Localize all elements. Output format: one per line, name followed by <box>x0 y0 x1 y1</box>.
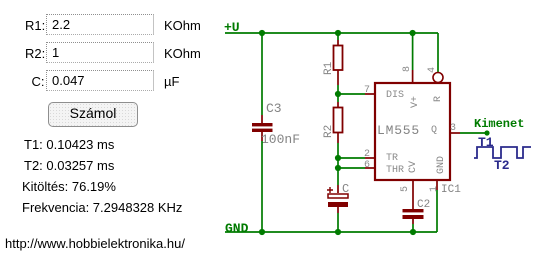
wire pin4 branch <box>437 33 439 72</box>
wire C3 branch lower <box>261 141 263 232</box>
svg-text:2: 2 <box>364 149 370 160</box>
pin 1 stub <box>436 180 438 190</box>
svg-text:8: 8 <box>402 66 413 72</box>
wire pin3 to output <box>460 132 487 134</box>
svg-text:R: R <box>433 96 444 102</box>
pin numbers <box>364 66 456 192</box>
wire R2 bottom to node TR <box>337 143 339 158</box>
svg-text:100nF: 100nF <box>261 132 300 147</box>
wire pin1 down to rail <box>436 190 438 232</box>
svg-text:GND: GND <box>436 156 447 174</box>
svg-text:6: 6 <box>364 160 370 171</box>
wire R1 top stub <box>337 33 339 40</box>
svg-text:GND: GND <box>225 221 249 236</box>
op-amp U1 : IC1 LM555 body <box>365 70 460 190</box>
svg-text:IC1: IC1 <box>441 184 461 196</box>
wire node down to R2 <box>337 94 339 102</box>
wire R1 bottom to node <box>337 85 339 94</box>
svg-text:T2: T2 <box>494 158 510 173</box>
wire THR node down to C <box>337 168 339 185</box>
svg-text:CV: CV <box>408 161 419 173</box>
svg-text:5: 5 <box>400 186 411 192</box>
svg-text:THR: THR <box>386 165 404 176</box>
pin names <box>386 90 447 176</box>
svg-text:Kimenet: Kimenet <box>474 117 524 131</box>
wire TR to THR node <box>337 158 339 168</box>
svg-text:7: 7 <box>364 85 370 96</box>
svg-text:C2: C2 <box>417 199 430 211</box>
junction dots <box>259 30 416 235</box>
pin 4 reset bubble <box>433 73 443 83</box>
button Számol <box>48 102 138 127</box>
svg-text:C: C <box>342 182 349 196</box>
pin 7 stub <box>365 93 375 95</box>
svg-text:4: 4 <box>427 67 438 73</box>
pin 5 stub <box>412 180 414 190</box>
pin 3 stub <box>450 132 460 134</box>
wire TR node to pin2 <box>338 157 365 159</box>
pin 8 stub <box>412 70 414 83</box>
form labels <box>25 19 45 32</box>
node Kimenet dangling dot <box>484 130 489 135</box>
svg-text:DIS: DIS <box>386 90 404 101</box>
wire C bottom <box>337 213 339 232</box>
results <box>24 138 114 151</box>
wire bottom rail GND <box>225 231 437 233</box>
pin 2 stub <box>365 157 375 159</box>
unit labels <box>164 19 201 32</box>
svg-text:C3: C3 <box>266 101 282 116</box>
svg-text:Q: Q <box>431 125 437 136</box>
svg-text:V+: V+ <box>410 96 421 108</box>
waveform sketch <box>474 147 531 158</box>
svg-text:1: 1 <box>429 186 440 192</box>
capacitor C2 <box>403 190 424 224</box>
wire C2 bottom <box>412 224 414 232</box>
pin 6 stub <box>365 167 375 169</box>
svg-text:R1: R1 <box>323 61 335 75</box>
wire THR node to pin6 <box>338 167 365 169</box>
resistor R2 <box>334 102 343 143</box>
capacitor C3 <box>252 115 273 141</box>
svg-text:TR: TR <box>386 153 398 164</box>
wire C3 branch upper <box>261 33 263 115</box>
input R1 <box>46 14 154 35</box>
capacitor C electrolytic <box>327 185 348 213</box>
resistor R1 <box>334 40 343 85</box>
input R2 <box>46 42 154 63</box>
svg-text:3: 3 <box>450 123 456 134</box>
wire node to DIS pin <box>338 93 365 95</box>
svg-text:T1: T1 <box>478 135 494 150</box>
url <box>5 237 185 250</box>
svg-text:+U: +U <box>224 20 240 35</box>
wire top rail +U <box>225 32 438 34</box>
wire pin8 branch <box>412 33 414 70</box>
input C <box>46 70 154 91</box>
svg-text:LM555: LM555 <box>377 123 420 138</box>
svg-text:R2: R2 <box>323 125 335 138</box>
